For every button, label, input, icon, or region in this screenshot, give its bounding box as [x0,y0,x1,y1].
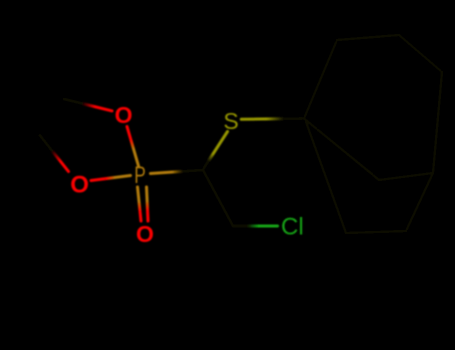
bond S-Cring(ipso) [241,117,302,121]
svg-text:P: P [134,162,146,189]
phenyl ring edge C-D [399,35,442,72]
svg-text:Cl: Cl [281,214,304,241]
phenyl ring lower-left segment [306,122,346,233]
bond O1-P [127,127,139,167]
bond S-C* [204,132,228,169]
svg-text:O: O [70,171,89,198]
phenyl ring edge B-C [337,35,399,40]
bond C2(methyl)-O2 [40,136,69,172]
phenyl ring inner line 1 [318,130,372,174]
double bond P=O3 line 1 [138,187,142,221]
bond C*-CH2 [203,170,233,226]
bond CH2-Cl [233,225,278,228]
svg-text:S: S [223,108,238,134]
bond P-C* [151,170,204,174]
phenyl ring inner line 2 [406,173,433,231]
phenyl ring edge E-F [379,173,433,180]
bond O2-P [91,176,131,181]
svg-text:O: O [136,221,154,247]
phenyl ring edge F-A [304,119,379,181]
svg-text:O: O [115,102,133,128]
double bond P=O3 line 2 [147,187,149,221]
phenyl ring edge A-B [304,40,337,119]
bond C1(methyl)-O1 [64,99,112,111]
phenyl ring edge D-E [433,72,442,173]
phenyl ring lower segment [346,231,406,233]
